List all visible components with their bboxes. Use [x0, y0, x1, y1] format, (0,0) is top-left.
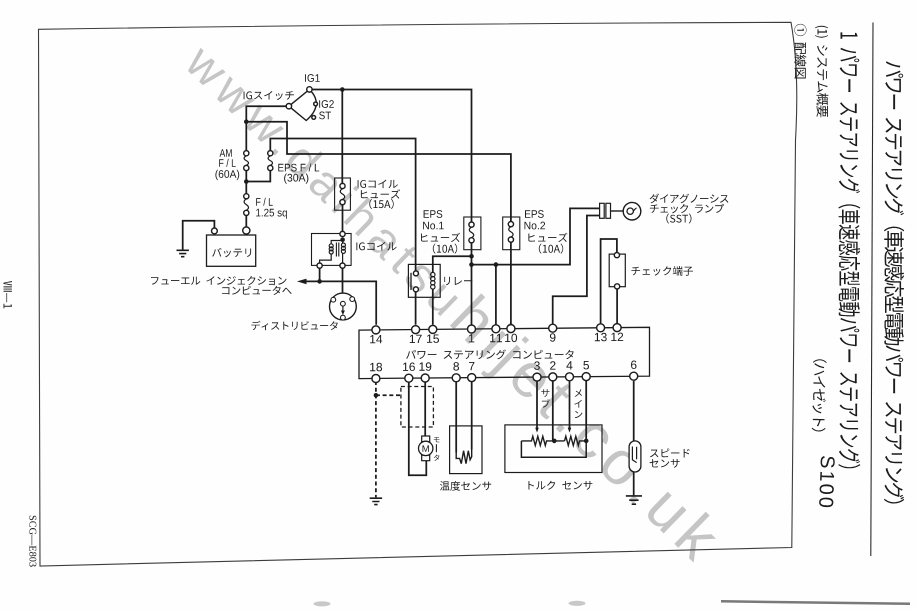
label main char2 — [574, 400, 581, 408]
wire pin 5 to torque sensor — [585, 381, 587, 441]
wire power rail to pin 11 and check lamp — [472, 208, 600, 264]
pin 17 computer top — [412, 326, 420, 334]
node battery feed / IG switch — [244, 119, 249, 124]
battery BAT body — [207, 235, 256, 266]
fuse EPS F/L 30A — [268, 156, 272, 166]
fuse IG coil fuse element — [340, 189, 344, 200]
pin 16 computer bottom — [405, 374, 413, 382]
label EPS No.2 line1 — [525, 210, 544, 218]
pin 4 computer bottom — [566, 373, 574, 381]
label EPS No.1 line2 — [423, 222, 444, 230]
wire pin 2 to torque sensor — [552, 381, 554, 441]
label EPS No.2 line2 — [525, 222, 546, 230]
wire IG coil minus to junction node — [319, 268, 321, 282]
node torque sensor sub tap — [552, 439, 557, 444]
label IG coil fuse line3 — [369, 199, 393, 209]
pin 3 computer bottom — [533, 373, 541, 381]
label battery — [212, 248, 251, 257]
inductor IG coil outer box — [312, 234, 352, 266]
label motor char2 — [434, 455, 440, 461]
wire EPS F/L fuse to relay switch — [270, 139, 415, 271]
fuse EPS No.2 10A box — [503, 217, 520, 250]
wire EPS No.1 fuse output to computer pin 1 — [471, 243, 473, 325]
label EPS No.2 fuse line3 — [528, 233, 567, 242]
wire connector to lamp — [611, 210, 624, 212]
label sub char1 — [541, 389, 549, 397]
svg-text:www.daihatsuhijet.co.uk: www.daihatsuhijet.co.uk — [173, 26, 737, 577]
label doc code SCG-E803 — [29, 516, 36, 567]
arrow distributor rotor — [342, 306, 344, 311]
wire pin 8 to temperature sensor — [455, 381, 457, 453]
wire junction to EPS No.2 fuse via node — [246, 122, 511, 222]
page frame border — [39, 22, 797, 566]
wire speed sensor to ground — [633, 472, 635, 496]
label EPS No.2 fuse line4 — [539, 244, 563, 254]
label speed sensor line1 — [650, 449, 690, 458]
label EPS No.1 line1 — [424, 210, 443, 218]
scan artifact line bottom right — [721, 601, 910, 604]
wire fuel injection arrow line to pin 14 — [305, 281, 377, 324]
terminal IG switch IG1 — [307, 87, 312, 92]
pin 13 computer top — [597, 324, 605, 332]
label section 1 column — [838, 32, 860, 468]
wire EPS No.1 junction to relay coil — [433, 256, 472, 272]
pin 19 computer bottom — [421, 374, 429, 382]
node dashed junction pin 18 — [374, 393, 379, 398]
ground speed sensor — [626, 496, 642, 504]
scan artifact smudge left — [314, 601, 331, 606]
thermistor temperature sensor element — [456, 450, 471, 464]
label torque sensor — [529, 481, 593, 490]
motor M electric power steering — [422, 436, 430, 442]
fuse IG coil fuse 15A box — [335, 178, 351, 210]
pin 2 computer bottom — [549, 373, 557, 381]
label (60A) — [215, 170, 239, 180]
terminal check terminal bottom — [615, 284, 620, 289]
wire IG switch battery feed down to AM fuse — [246, 106, 289, 150]
terminal distributor bottom — [341, 315, 346, 320]
label IG coil fuse line2 — [361, 189, 400, 198]
label page number VIII-1 — [4, 281, 12, 308]
inductor IG coil windings and core — [329, 244, 333, 248]
switch SW1 IG switch body — [289, 89, 316, 120]
label speed sensor line2 — [650, 459, 680, 468]
terminal battery plus — [243, 227, 250, 234]
label EPS No.1 fuse line4 — [433, 244, 457, 254]
sensor torque sensor box — [505, 425, 602, 473]
pin 10 computer top — [507, 325, 515, 333]
node IG coil minus junction — [317, 279, 322, 284]
connector diagnosis check lamp — [600, 203, 605, 218]
terminal IG switch IG2 — [314, 102, 318, 106]
connector check terminal — [609, 254, 625, 287]
resistor torque sub zigzag — [521, 436, 564, 445]
pin 12 computer top — [613, 324, 621, 332]
wire pin 4 torque sensor main wiper — [569, 381, 571, 428]
label header title column — [884, 61, 904, 503]
pin 14 computer top — [372, 326, 380, 334]
label fuel injection line2 — [222, 286, 292, 295]
scan artifact smudge middle — [569, 601, 586, 606]
wire pin 18 dashed branch to motor box — [376, 394, 401, 396]
terminal distributor cap right — [350, 297, 355, 302]
pin 6 computer bottom — [630, 372, 638, 380]
label F/L — [219, 159, 236, 167]
label sub char2 — [542, 399, 550, 407]
wire EPS No.2 fuse to pin 10 — [510, 242, 512, 324]
fuse EPS No.1 element — [469, 227, 473, 238]
label subsection column — [815, 26, 828, 118]
terminal IG switch battery side — [286, 104, 291, 109]
lamp diagnosis check lamp SST — [623, 202, 641, 220]
label (30A) — [284, 174, 308, 184]
terminal relay switch top — [413, 271, 418, 276]
dashed box motor drive pair — [401, 387, 434, 428]
fuse EPS No.2 element — [509, 227, 513, 237]
wire relay coil to pin 15 — [432, 289, 434, 325]
distributor body — [330, 293, 357, 320]
label motor M — [423, 445, 429, 452]
pin 1 computer top — [468, 325, 476, 333]
wire IG coil secondary to distributor — [342, 268, 344, 301]
terminal IG coil secondary — [340, 263, 345, 268]
label check terminal — [631, 266, 693, 276]
arrow to fuel injection computer — [297, 279, 307, 285]
wire pin 11 riser — [495, 265, 497, 325]
label main char3 — [575, 411, 583, 418]
wire IG1 from IG switch to EPS No.1 fuse — [309, 90, 471, 222]
label power steering computer — [406, 350, 574, 360]
wire pin 19 to motor upper brush — [424, 381, 426, 436]
pin 9 computer top — [549, 324, 557, 332]
label main char1 — [575, 389, 582, 397]
terminal IG coil minus — [317, 263, 322, 268]
label relay — [444, 277, 472, 285]
arrow torque main wiper — [568, 428, 572, 433]
terminal battery minus — [212, 228, 218, 234]
terminal distributor center — [341, 301, 346, 306]
label handwritten Hijet — [812, 359, 827, 432]
label item column — [794, 24, 806, 79]
pin 11 computer top — [492, 325, 500, 333]
arrow torque sub wiper — [535, 428, 539, 433]
label temperature sensor — [440, 481, 491, 491]
terminal distributor cap left — [331, 297, 336, 302]
wire battery minus to chassis ground — [183, 221, 215, 250]
node IG coil primary — [340, 238, 345, 243]
fuse EPS No.1 10A box — [464, 217, 481, 250]
wire AM fuse to F/L fuse — [245, 171, 247, 194]
pin 5 computer bottom — [582, 373, 590, 381]
node torque sensor main tap — [584, 439, 589, 444]
terminal relay switch bottom — [413, 287, 418, 292]
terminal IG switch ST — [312, 116, 316, 120]
relay R1 box — [408, 264, 440, 297]
computer box power steering computer — [359, 327, 650, 378]
label EPS No.1 fuse line3 — [421, 233, 460, 242]
node power rail A — [469, 262, 474, 267]
node EPS No.1 to relay coil — [469, 254, 474, 259]
wire IG coil fuse to IG coil — [342, 205, 344, 232]
wire EPS F/L bottom to junction — [246, 171, 270, 182]
wire pin 18 dashed ground line — [375, 381, 377, 497]
node IG1 branch — [340, 87, 345, 92]
pin 18 computer bottom — [372, 375, 380, 383]
relay coil — [431, 272, 435, 276]
wire check lamp return to pin 9 — [553, 216, 600, 325]
label motor vowel bar — [435, 444, 437, 452]
terminal check terminal top — [614, 253, 619, 258]
node AM F/L / EPS F/L junction — [244, 179, 249, 184]
node power rail B — [494, 262, 499, 267]
label diagnosis lamp line1 — [650, 194, 729, 204]
label IG switch — [244, 91, 294, 100]
wire pin 7 to temperature sensor — [471, 381, 473, 450]
fuse AM F/L 60A — [244, 156, 248, 166]
pin 8 computer bottom — [452, 374, 460, 382]
label IG coil — [356, 242, 396, 251]
pin 15 computer top — [429, 325, 437, 333]
ground dashed shield ground — [370, 498, 382, 504]
pin 7 computer bottom — [468, 374, 476, 382]
label diagnosis lamp line3 — [666, 214, 691, 224]
label AM — [220, 149, 232, 157]
terminal IG coil top — [340, 231, 345, 236]
wire pin 16 to motor lower brush — [409, 381, 427, 475]
label motor char1 — [434, 437, 440, 442]
header strip divider line — [871, 23, 873, 557]
wire torque sensor bottom loop — [521, 441, 586, 457]
label ST — [319, 112, 331, 120]
label IG coil fuse line1 — [358, 180, 398, 189]
wire pin 6 to speed sensor — [633, 381, 635, 441]
label handwritten S100 — [819, 456, 835, 507]
ground chassis at battery — [177, 250, 189, 256]
wire F/L fuse to battery plus terminal — [245, 216, 247, 228]
label F/L 1.25 — [256, 198, 273, 206]
wire check terminal bottom to pin 12 — [616, 289, 618, 324]
wire IG1 branch to IG coil fuse — [341, 90, 343, 184]
label IG2 — [319, 100, 334, 108]
label 1.25 sq — [256, 209, 287, 219]
label IG1 — [305, 74, 320, 82]
wire check terminal top to pin 13 — [601, 239, 617, 325]
label EPS F/L — [278, 163, 319, 171]
label diagnosis lamp line2 — [650, 204, 724, 214]
resistor torque main zigzag — [565, 436, 587, 445]
fuse F/L 1.25 sq fusible link — [244, 199, 248, 210]
sensor speed sensor reed capsule — [629, 441, 641, 472]
label distributor — [251, 321, 337, 331]
label fuel injection line1 — [151, 276, 287, 285]
wire relay switch to pin 17 — [415, 292, 417, 325]
relay contact bar — [410, 273, 412, 290]
wire pin 3 torque sensor sub wiper — [536, 381, 538, 428]
sensor temperature sensor box — [450, 426, 482, 474]
